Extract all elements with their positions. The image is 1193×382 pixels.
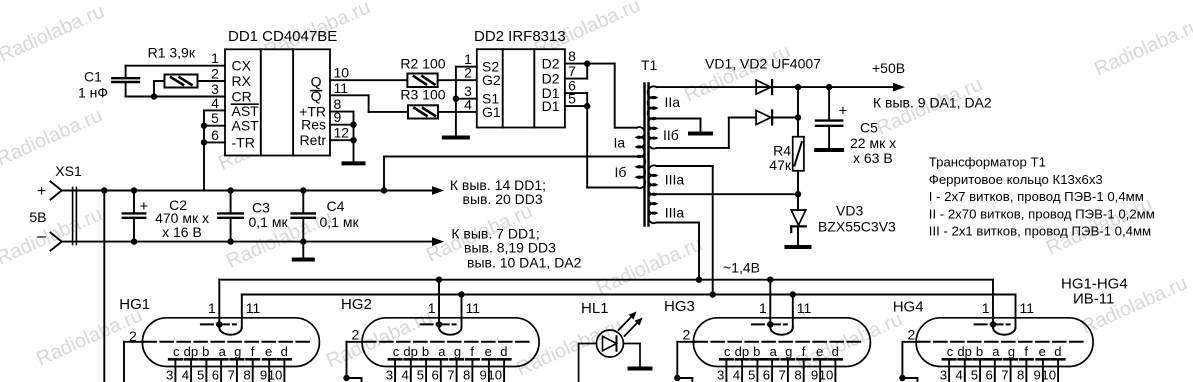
svg-text:3: 3 xyxy=(386,368,393,382)
svg-text:g: g xyxy=(785,344,792,359)
label transformer T1 notes xyxy=(929,155,1155,239)
svg-text:12: 12 xyxy=(334,125,350,141)
svg-text:0,1 мк: 0,1 мк xyxy=(320,214,360,230)
ground HL1 xyxy=(630,367,651,369)
diode VD2 xyxy=(756,111,772,125)
svg-text:5В: 5В xyxy=(29,209,46,225)
capacitor C4 xyxy=(292,191,360,242)
capacitor C2 xyxy=(123,191,209,242)
wire winding III top to lower filament bus xyxy=(657,165,713,167)
svg-text:f: f xyxy=(802,344,806,359)
svg-text:8: 8 xyxy=(1017,368,1024,382)
HG3 filament dashed line xyxy=(752,323,787,325)
ground winding II center tap xyxy=(690,119,711,134)
svg-text:III - 2х1 витков, провод ПЭВ-1: III - 2х1 витков, провод ПЭВ-1 0,4мм xyxy=(929,224,1151,239)
svg-text:0,1 мк: 0,1 мк xyxy=(249,214,289,230)
svg-text:6: 6 xyxy=(763,368,770,382)
svg-text:4: 4 xyxy=(401,368,408,382)
svg-text:11: 11 xyxy=(797,300,812,316)
svg-text:XS1: XS1 xyxy=(55,163,82,179)
svg-text:9: 9 xyxy=(260,368,267,382)
wire DD2 pins 6,5 D1 to winding Iб xyxy=(565,92,587,94)
HG4 segment anodes xyxy=(940,344,1065,382)
wire DD1 pin6 xyxy=(204,141,225,143)
HG2 filament pins 1,11 xyxy=(428,280,481,335)
svg-text:dp: dp xyxy=(957,344,971,359)
HG1 filament dashed line xyxy=(201,323,236,325)
svg-text:f: f xyxy=(470,344,474,359)
svg-text:g: g xyxy=(1008,344,1015,359)
HG3 grid (pin 2) xyxy=(674,327,860,382)
zener VD3 BZX55C3V3 xyxy=(791,194,896,234)
svg-text:HG3: HG3 xyxy=(664,298,695,315)
VFD tube HG3 ИВ-11 xyxy=(664,298,870,367)
wire winding III bottom to upper filament bus xyxy=(657,222,700,224)
wire +5V rail xyxy=(62,190,436,192)
LED HL1 xyxy=(579,300,643,382)
svg-text:R2 100: R2 100 xyxy=(400,56,445,72)
VFD tube HG2 ИВ-11 xyxy=(341,296,539,367)
wire R4 to VD3 xyxy=(797,171,799,194)
wire DD1 pins4-6 to +5V rail xyxy=(203,110,205,190)
svg-text:х 63 В: х 63 В xyxy=(853,150,893,166)
svg-text:3: 3 xyxy=(940,368,947,382)
svg-text:6: 6 xyxy=(212,368,219,382)
wire winding II center tap to ground xyxy=(657,118,701,120)
svg-text:Radiolaba.ru: Radiolaba.ru xyxy=(593,233,706,299)
svg-text:2: 2 xyxy=(211,66,219,82)
svg-text:выв. 8,19 DD3: выв. 8,19 DD3 xyxy=(464,240,556,256)
svg-text:7: 7 xyxy=(1001,368,1008,382)
svg-text:8: 8 xyxy=(243,368,250,382)
ground VD3 xyxy=(787,228,810,248)
HG1 filament pins 1,11 xyxy=(208,280,261,335)
svg-text:Radiolaba.ru: Radiolaba.ru xyxy=(0,203,106,269)
svg-text:4: 4 xyxy=(211,95,219,111)
svg-text:b: b xyxy=(976,344,983,359)
svg-text:1: 1 xyxy=(982,300,990,316)
svg-text:a: a xyxy=(992,344,1000,359)
svg-text:c: c xyxy=(173,344,180,359)
svg-text:D1: D1 xyxy=(542,98,560,114)
svg-text:f: f xyxy=(251,344,255,359)
svg-text:g: g xyxy=(234,344,241,359)
svg-text:DD1 CD4047BE: DD1 CD4047BE xyxy=(228,28,337,45)
wire 0V rail xyxy=(62,241,436,243)
wire R3 to DD2 pin4 xyxy=(438,111,477,113)
svg-text:8: 8 xyxy=(463,368,470,382)
winding Iб xyxy=(615,156,646,188)
svg-text:Retr: Retr xyxy=(300,132,327,148)
svg-text:HG4: HG4 xyxy=(893,299,924,316)
svg-text:10: 10 xyxy=(334,65,350,81)
svg-text:IIIa: IIIa xyxy=(665,205,685,221)
svg-text:Radiolaba.ru: Radiolaba.ru xyxy=(681,40,794,106)
svg-text:Radiolaba.ru: Radiolaba.ru xyxy=(323,306,436,372)
svg-text:IIIa: IIIa xyxy=(665,172,685,188)
transistor Q1/Q2: IC DD2 IRF8313 xyxy=(474,28,566,128)
svg-text:1: 1 xyxy=(211,50,219,66)
svg-text:7: 7 xyxy=(447,368,454,382)
svg-text:1: 1 xyxy=(428,300,436,316)
wire DD1 pin1 to C1 xyxy=(126,65,225,67)
svg-text:d: d xyxy=(1054,344,1061,359)
svg-text:2: 2 xyxy=(683,327,691,343)
svg-text:R3 100: R3 100 xyxy=(400,87,445,103)
ground DD1 xyxy=(344,162,364,164)
HG4 grid (pin 2) xyxy=(899,327,1083,382)
svg-text:7: 7 xyxy=(228,368,235,382)
transformer T1 core xyxy=(641,57,658,226)
svg-text:10: 10 xyxy=(819,368,834,382)
svg-text:3: 3 xyxy=(717,368,724,382)
svg-text:4: 4 xyxy=(955,368,962,382)
svg-text:IIa: IIa xyxy=(665,94,681,110)
svg-text:К выв. 9 DA1, DA2: К выв. 9 DA1, DA2 xyxy=(873,95,992,111)
wire DD1 pin3 to C1 xyxy=(126,96,225,98)
wire winding I center tap to +5V rail xyxy=(384,156,637,158)
svg-text:II - 2х70 витков, провод ПЭВ-1: II - 2х70 витков, провод ПЭВ-1 0,2мм xyxy=(929,206,1155,221)
svg-text:6: 6 xyxy=(985,368,992,382)
svg-text:e: e xyxy=(816,344,823,359)
ground DD2 sources xyxy=(444,136,468,138)
svg-text:d: d xyxy=(500,344,507,359)
svg-text:Трансформатор Т1: Трансформатор Т1 xyxy=(929,155,1046,170)
op-amp U1: IC DD1 CD4047BE xyxy=(225,28,337,156)
wire +5V branch down xyxy=(103,191,105,382)
svg-text:c: c xyxy=(724,344,731,359)
winding IIIa (lower) xyxy=(649,194,685,224)
wire IIб bottom to VD2 xyxy=(657,147,729,149)
svg-text:8: 8 xyxy=(568,48,576,64)
DD1 pin numbers left xyxy=(211,50,219,143)
svg-text:9: 9 xyxy=(1034,368,1041,382)
VFD tube HG4 ИВ-11 xyxy=(893,299,1093,367)
svg-text:Radiolaba.ru: Radiolaba.ru xyxy=(0,104,106,170)
VFD tube HG1 ИВ-11 xyxy=(119,296,319,367)
svg-text:3: 3 xyxy=(166,368,173,382)
arrow 0V rail xyxy=(432,237,444,246)
svg-text:6: 6 xyxy=(211,127,219,143)
svg-text:6: 6 xyxy=(431,368,438,382)
svg-text:a: a xyxy=(219,344,227,359)
diode VD1 xyxy=(756,80,772,94)
svg-text:Radiolaba.ru: Radiolaba.ru xyxy=(1091,14,1193,80)
svg-text:IIб: IIб xyxy=(663,127,679,143)
svg-text:2: 2 xyxy=(908,327,916,343)
svg-text:d: d xyxy=(832,344,839,359)
winding Ia xyxy=(614,127,645,157)
svg-text:G1: G1 xyxy=(482,104,501,120)
svg-text:g: g xyxy=(454,344,461,359)
svg-text:b: b xyxy=(753,344,760,359)
HG1 segment anodes xyxy=(166,344,291,382)
svg-text:1: 1 xyxy=(208,300,216,316)
svg-text:R1 3,9к: R1 3,9к xyxy=(148,45,196,61)
winding IIб xyxy=(648,118,679,149)
svg-text:9: 9 xyxy=(811,368,818,382)
arrow +50V xyxy=(893,83,905,92)
capacitor C3 xyxy=(218,191,288,242)
svg-text:х 16 В: х 16 В xyxy=(162,224,202,240)
junction R1/C1/pin3 xyxy=(151,93,157,99)
svg-text:~1,4В: ~1,4В xyxy=(723,260,760,276)
svg-text:D2: D2 xyxy=(542,56,560,72)
svg-text:e: e xyxy=(1039,344,1046,359)
svg-text:AST: AST xyxy=(232,118,260,134)
wire +50V line from IIa xyxy=(657,86,898,88)
svg-text:+: + xyxy=(839,103,848,120)
HG1 grid (pin 2) xyxy=(124,328,309,382)
svg-text:47к: 47к xyxy=(769,157,792,173)
wire DD1 pin10 Q to R2 xyxy=(330,79,407,81)
HG3 segment anodes xyxy=(717,344,842,382)
svg-text:+: + xyxy=(140,198,149,215)
svg-text:5: 5 xyxy=(748,368,755,382)
svg-text:5: 5 xyxy=(197,368,204,382)
wire lower filament bus xyxy=(242,294,1016,296)
svg-text:11: 11 xyxy=(246,300,261,316)
DD1 pin numbers right xyxy=(334,65,350,141)
svg-text:RX: RX xyxy=(232,73,252,89)
svg-text:c: c xyxy=(393,344,400,359)
svg-text:Т1: Т1 xyxy=(641,57,658,73)
wire DD2 pins 8,7 D2 to winding Ia xyxy=(565,63,615,65)
svg-text:d: d xyxy=(281,344,288,359)
svg-text:4: 4 xyxy=(733,368,740,382)
svg-text:11: 11 xyxy=(334,80,349,96)
arrow +5V rail xyxy=(432,186,444,195)
wire DD2 pins1,3 S to ground xyxy=(456,66,477,68)
HG3 filament pins 1,11 xyxy=(759,280,812,335)
svg-text:22 мк х: 22 мк х xyxy=(850,135,896,151)
svg-text:выв. 10 DA1, DA2: выв. 10 DA1, DA2 xyxy=(467,255,582,271)
HG2 grid (pin 2) xyxy=(343,327,529,382)
svg-text:Iб: Iб xyxy=(615,164,627,180)
svg-text:f: f xyxy=(1024,344,1028,359)
svg-text:HL1: HL1 xyxy=(581,300,609,317)
svg-text:DD2 IRF8313: DD2 IRF8313 xyxy=(474,28,566,45)
svg-text:1 нФ: 1 нФ xyxy=(78,85,108,101)
svg-text:+50В: +50В xyxy=(872,60,905,76)
svg-text:b: b xyxy=(202,344,209,359)
svg-text:5: 5 xyxy=(417,368,424,382)
svg-text:+: + xyxy=(37,183,46,200)
svg-text:4: 4 xyxy=(182,368,189,382)
ground C5 xyxy=(816,149,842,151)
wire winding III center tap to VD3 node xyxy=(657,193,799,195)
svg-text:С1: С1 xyxy=(84,69,102,85)
svg-text:VD1, VD2 UF4007: VD1, VD2 UF4007 xyxy=(705,56,821,72)
wire VD1/VD2 cathode join xyxy=(797,87,799,117)
capacitor C5 xyxy=(816,87,896,166)
svg-text:BZX55C3V3: BZX55C3V3 xyxy=(818,219,896,235)
svg-text:a: a xyxy=(770,344,778,359)
resistor R3 xyxy=(400,87,445,119)
svg-text:1: 1 xyxy=(759,300,767,316)
svg-text:11: 11 xyxy=(466,300,481,316)
connector XS1 xyxy=(29,163,82,251)
HG2 segment anodes xyxy=(386,344,511,382)
wire R2 to DD2 pin2 xyxy=(438,79,477,81)
wire DD1 pin5 xyxy=(204,125,225,127)
svg-text:ИВ-11: ИВ-11 xyxy=(1073,291,1114,308)
ground 0V rail xyxy=(294,242,313,260)
svg-text:AST: AST xyxy=(232,103,260,119)
svg-text:10: 10 xyxy=(268,368,283,382)
winding IIa xyxy=(648,86,681,119)
svg-text:7: 7 xyxy=(779,368,786,382)
svg-text:e: e xyxy=(265,344,272,359)
svg-text:-TR: -TR xyxy=(232,134,255,150)
svg-text:5: 5 xyxy=(211,110,219,126)
capacitor C1 xyxy=(78,66,139,101)
svg-text:a: a xyxy=(438,344,446,359)
svg-text:C4: C4 xyxy=(327,198,345,214)
svg-text:HG1: HG1 xyxy=(119,296,150,313)
wire upper filament bus xyxy=(219,279,993,281)
svg-text:–: – xyxy=(37,228,46,245)
svg-text:dp: dp xyxy=(184,344,198,359)
svg-text:Radiolaba.ru: Radiolaba.ru xyxy=(0,0,108,66)
svg-text:8: 8 xyxy=(794,368,801,382)
svg-text:С5: С5 xyxy=(860,120,878,136)
svg-text:Ia: Ia xyxy=(614,135,626,151)
wire VD2 cathode to node xyxy=(773,117,798,119)
svg-text:dp: dp xyxy=(403,344,417,359)
svg-text:9: 9 xyxy=(480,368,487,382)
DD2 pin numbers xyxy=(464,48,576,112)
svg-text:VD3: VD3 xyxy=(836,203,863,219)
svg-text:10: 10 xyxy=(1041,368,1056,382)
wire DD1 pin11 Q-bar to R3 xyxy=(330,94,369,96)
HG4 filament dashed line xyxy=(975,323,1010,325)
svg-text:c: c xyxy=(947,344,954,359)
svg-text:CX: CX xyxy=(232,58,252,74)
svg-text:I - 2х7 витков, провод ПЭВ-1 0: I - 2х7 витков, провод ПЭВ-1 0,4мм xyxy=(929,189,1144,204)
HG2 filament dashed line xyxy=(421,323,456,325)
svg-text:G2: G2 xyxy=(482,72,501,88)
resistor R2 xyxy=(400,56,445,88)
svg-text:Ферритовое кольцо К13х6х3: Ферритовое кольцо К13х6х3 xyxy=(929,172,1103,187)
winding IIIa (upper) xyxy=(649,165,685,195)
svg-text:b: b xyxy=(422,344,429,359)
HG4 filament pins 1,11 xyxy=(982,280,1035,335)
svg-text:10: 10 xyxy=(487,368,502,382)
svg-text:2: 2 xyxy=(352,327,360,343)
svg-text:5: 5 xyxy=(971,368,978,382)
wire DD1 pin4 xyxy=(204,109,225,111)
svg-text:e: e xyxy=(485,344,492,359)
resistor R4 xyxy=(769,118,804,174)
wire DD1 pins 8,9,12 to ground xyxy=(330,111,354,113)
svg-text:11: 11 xyxy=(1020,300,1035,316)
svg-text:выв. 20 DD3: выв. 20 DD3 xyxy=(463,191,543,207)
svg-text:Res: Res xyxy=(301,117,326,133)
svg-text:2: 2 xyxy=(129,328,137,344)
resistor R1 xyxy=(148,45,225,97)
svg-text:HG2: HG2 xyxy=(341,296,372,313)
svg-text:dp: dp xyxy=(735,344,749,359)
